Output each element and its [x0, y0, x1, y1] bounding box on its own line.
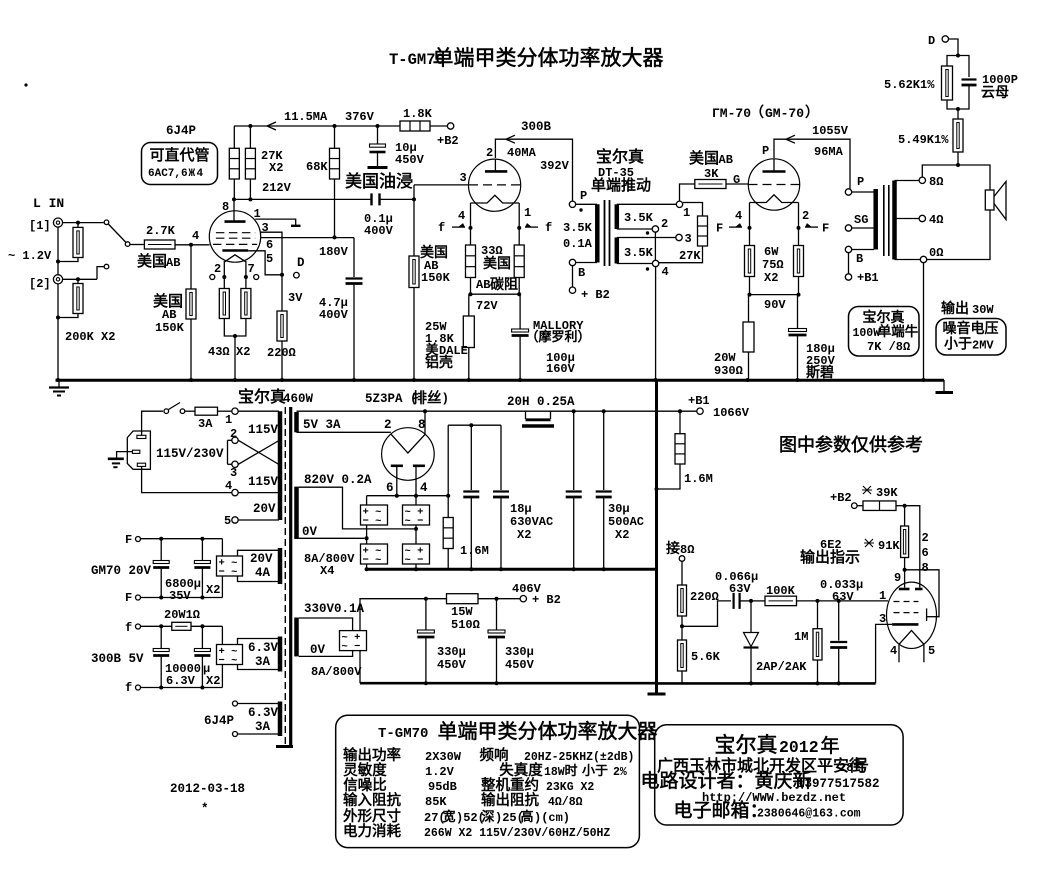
- svg-text:4: 4: [197, 168, 204, 180]
- wire 300B grid from coupling cap: [413, 185, 415, 256]
- mains plug P1: [127, 431, 150, 469]
- svg-text:20W1Ω: 20W1Ω: [164, 608, 200, 622]
- svg-text:5: 5: [266, 252, 273, 266]
- svg-text:− ~: − ~: [363, 516, 382, 528]
- svg-text:铝壳: 铝壳: [425, 354, 453, 370]
- filament arrows F F GM-70: [729, 226, 742, 228]
- capacitor C8 6800u: [201, 539, 203, 561]
- svg-text:0V: 0V: [310, 643, 326, 657]
- svg-text:+B1: +B1: [857, 271, 879, 285]
- wire minus rail 330V supply: [359, 651, 361, 684]
- svg-text:100W: 100W: [853, 327, 881, 340]
- svg-text:2012-03-18: 2012-03-18: [170, 782, 245, 796]
- svg-text:11.5MA: 11.5MA: [284, 110, 328, 124]
- tube V2 filament: [471, 195, 520, 203]
- rectifier bridge B1 20V: [221, 539, 223, 556]
- svg-text:2012: 2012: [779, 738, 819, 757]
- wire F bottom rail: [141, 597, 223, 599]
- svg-text:1M: 1M: [794, 630, 808, 644]
- tap 0 ohm: [895, 259, 921, 261]
- svg-text:+B2: +B2: [830, 491, 852, 505]
- resistor R17 75 ohm right: [798, 228, 800, 246]
- filament arrows f f 300B: [452, 226, 465, 228]
- capacitor C2 0.1u 400V coupling: [370, 193, 372, 205]
- svg-text:+B2: +B2: [437, 134, 459, 148]
- svg-text:f: f: [545, 221, 552, 235]
- svg-text:4: 4: [420, 481, 428, 495]
- svg-text:5: 5: [928, 644, 935, 658]
- svg-text:6J4P: 6J4P: [204, 714, 234, 728]
- wire rectifier output node: [367, 495, 449, 497]
- svg-text:1.2V: 1.2V: [425, 765, 455, 779]
- svg-text:15W: 15W: [451, 605, 473, 619]
- svg-text:GM70 20V: GM70 20V: [91, 564, 152, 578]
- svg-text:400V: 400V: [319, 308, 349, 322]
- svg-text:L IN: L IN: [33, 196, 64, 211]
- svg-text:f: f: [438, 221, 445, 235]
- tube V5 cathode bar: [892, 623, 918, 626]
- svg-text:F: F: [822, 222, 829, 236]
- svg-text:图中参数仅供参考: 图中参数仅供参考: [779, 435, 923, 455]
- terminal B output transformer: [845, 246, 851, 252]
- label noise voltage box: [936, 319, 1006, 356]
- resistor R 200K lower: [76, 277, 80, 281]
- svg-text:376V: 376V: [345, 110, 375, 124]
- svg-text:18μ: 18μ: [510, 502, 532, 516]
- svg-text:5.49K1%: 5.49K1%: [898, 133, 949, 147]
- earth ground at plug: [117, 452, 133, 458]
- transformer T2 output: terminal P: [845, 189, 851, 195]
- svg-text:宽: 宽: [442, 809, 455, 824]
- svg-text:180V: 180V: [319, 245, 349, 259]
- wire to grid node: [797, 600, 839, 602]
- input selector switch S1: [104, 220, 109, 225]
- wire 43 ohm join to ground: [224, 319, 246, 337]
- tube V5 filament: [899, 631, 924, 645]
- svg-text:1: 1: [683, 206, 690, 220]
- resistor R6 1.8K: [400, 121, 430, 131]
- svg-text:单端甲类分体功率放大器: 单端甲类分体功率放大器: [433, 47, 664, 70]
- svg-text:F: F: [125, 533, 132, 547]
- wire 90V cathode node: [749, 277, 751, 295]
- svg-text:300B: 300B: [521, 120, 552, 134]
- svg-text:6: 6: [922, 546, 929, 560]
- tube V4 anode bars: [391, 464, 403, 467]
- svg-text:− ~: − ~: [219, 567, 238, 579]
- svg-text:2: 2: [214, 262, 221, 276]
- svg-text:噪音电压: 噪音电压: [943, 320, 999, 336]
- svg-text:4: 4: [458, 209, 465, 223]
- terminal P DT-35: [569, 201, 575, 207]
- svg-text:20V: 20V: [250, 552, 273, 566]
- svg-text:400V: 400V: [364, 224, 394, 238]
- svg-text:2.7K: 2.7K: [146, 224, 176, 238]
- svg-text:30W: 30W: [972, 303, 994, 317]
- svg-text:96MA: 96MA: [814, 145, 844, 159]
- svg-text:90V: 90V: [764, 298, 786, 312]
- svg-text:95dB: 95dB: [428, 780, 457, 794]
- wire 5V bottom to tube filament pin2: [297, 431, 391, 433]
- terminal 3 DT-35: [676, 234, 682, 240]
- main vertical ground link: [655, 380, 658, 693]
- resistor R18 20W 930 ohm: [748, 295, 750, 322]
- svg-text:SG: SG: [854, 213, 868, 227]
- resistor R21 20W 1 ohm hum pot: [141, 625, 172, 627]
- svg-text:23KG X2: 23KG X2: [546, 781, 594, 794]
- svg-text:3: 3: [460, 171, 467, 185]
- svg-text:3A: 3A: [198, 417, 213, 431]
- svg-text:X2: X2: [764, 271, 778, 285]
- svg-text:27K: 27K: [679, 249, 701, 263]
- svg-text:2: 2: [922, 531, 929, 545]
- svg-text:4: 4: [192, 229, 199, 243]
- capacitor C17 0.066u 63V: [732, 593, 734, 609]
- tube V2 anode bar: [494, 159, 496, 171]
- svg-text:P: P: [580, 189, 587, 203]
- svg-text:7K /8: 7K /8: [867, 340, 903, 354]
- svg-text:6.3V: 6.3V: [248, 706, 279, 720]
- svg-text:150K: 150K: [155, 321, 185, 335]
- svg-text:宝尔真: 宝尔真: [238, 388, 286, 406]
- svg-text:AB: AB: [719, 153, 733, 167]
- tube V1 grid dashes: [216, 232, 255, 234]
- resistor R7 27K left: [233, 126, 235, 148]
- svg-text:392V: 392V: [540, 159, 570, 173]
- wire F top rail: [141, 538, 223, 540]
- wire f bottom rail: [141, 687, 223, 689]
- svg-text:68K: 68K: [306, 160, 328, 174]
- svg-text:)52(: )52(: [456, 811, 485, 825]
- wire to pin 2-6-8: [905, 506, 920, 588]
- svg-text:单端推动: 单端推动: [591, 177, 651, 194]
- wire choke loop: [525, 411, 527, 419]
- resistor R5 43 ohm heater right: [245, 277, 247, 289]
- svg-text:500AC: 500AC: [608, 515, 644, 529]
- terminal SG: [845, 225, 851, 231]
- svg-text:（: （: [750, 104, 764, 120]
- primary winding bars: [278, 411, 283, 466]
- svg-text:115V/230V: 115V/230V: [156, 447, 224, 461]
- diode D1 2AP/2AK: [750, 601, 752, 633]
- tube V4 pin8 wire: [424, 411, 426, 435]
- svg-text:9: 9: [894, 571, 901, 585]
- svg-text:)(cm): )(cm): [534, 811, 570, 825]
- svg-text:~ 1.2V: ~ 1.2V: [8, 249, 52, 263]
- current arrow 11.5MA: [267, 122, 276, 130]
- svg-text:输出: 输出: [941, 300, 969, 316]
- capacitor C5 180u 250V: [797, 295, 799, 329]
- svg-text:+ B2: + B2: [532, 593, 561, 607]
- svg-text:20H 0.25A: 20H 0.25A: [507, 395, 575, 409]
- capacitor C4 100u 160V MALLORY: [519, 294, 521, 329]
- capacitor C15 330u 450V a: [425, 599, 427, 630]
- capacitor C3 4.7u 400V: [353, 238, 355, 277]
- svg-text:1.6M: 1.6M: [460, 544, 489, 558]
- ground bus: [56, 379, 945, 382]
- resistor R8 27K right: [249, 126, 251, 148]
- svg-text:4Ω: 4Ω: [929, 213, 943, 227]
- svg-text:电力消耗: 电力消耗: [343, 823, 401, 840]
- svg-text:单端甲类分体功率放大器: 单端甲类分体功率放大器: [438, 720, 658, 743]
- svg-text:）: ）: [805, 104, 819, 120]
- tube V1 6J4P envelope: [209, 211, 260, 262]
- svg-text:宝尔真: 宝尔真: [596, 148, 644, 166]
- svg-text:5: 5: [224, 514, 231, 528]
- winding 20V 4A connection: [238, 550, 280, 556]
- svg-text:3: 3: [230, 466, 237, 480]
- svg-text:8Ω: 8Ω: [929, 175, 943, 189]
- svg-text:输出功率: 输出功率: [343, 747, 401, 764]
- wire 300B plate feed 392V: [495, 139, 572, 201]
- svg-text:8: 8: [922, 561, 929, 575]
- rectifier bridge B7 330V: [340, 631, 367, 651]
- svg-text:接: 接: [666, 540, 680, 556]
- svg-text:510Ω: 510Ω: [451, 618, 480, 632]
- resistor R28 5.6K: [681, 626, 683, 640]
- stray dot: [24, 83, 27, 86]
- svg-text:115V: 115V: [248, 475, 279, 489]
- note box: substitute tubes: [142, 143, 218, 185]
- svg-text:72V: 72V: [476, 299, 498, 313]
- transformer T1 secondary bottom 3.5K: [615, 238, 620, 264]
- svg-text:330μ: 330μ: [505, 645, 534, 659]
- svg-text:6AC7,6: 6AC7,6: [148, 168, 188, 180]
- svg-text:Ω: Ω: [289, 346, 296, 360]
- svg-text:63V: 63V: [832, 590, 854, 604]
- svg-text:失真度: 失真度: [499, 761, 543, 779]
- svg-text:0Ω: 0Ω: [929, 246, 943, 260]
- svg-text:630VAC: 630VAC: [510, 515, 553, 529]
- svg-text:整机重约: 整机重约: [481, 777, 539, 794]
- svg-text:输出阻抗: 输出阻抗: [481, 792, 539, 809]
- terminal 1 DT-35: [676, 201, 682, 207]
- svg-text:AB: AB: [166, 256, 180, 270]
- winding 6.3V 3A (6J4P): [233, 701, 238, 706]
- terminal D upper divider: [942, 36, 948, 42]
- resistor R1 2.7K: [130, 244, 145, 246]
- svg-text:电子邮箱：: 电子邮箱：: [673, 800, 768, 822]
- ground symbol right chassis: [943, 380, 945, 392]
- svg-text:2%: 2%: [613, 766, 627, 779]
- svg-text:8Ω: 8Ω: [680, 543, 694, 557]
- svg-text:美国: 美国: [420, 244, 448, 260]
- svg-text:20V: 20V: [253, 502, 276, 516]
- capacitor C9 10000u: [160, 626, 162, 648]
- svg-text:30μ: 30μ: [608, 502, 630, 516]
- svg-text:X2: X2: [206, 583, 220, 597]
- svg-text:450V: 450V: [437, 658, 467, 672]
- transformer T1 secondary top 3.5K: [615, 204, 620, 229]
- tube V5 pins 4 5: [898, 644, 900, 662]
- resistor R19 5.62K 1%: [947, 56, 958, 67]
- svg-text:150K: 150K: [421, 271, 451, 285]
- tube V3 filament: [750, 195, 799, 203]
- capacitor C7 6800u: [160, 539, 162, 561]
- svg-text:63V: 63V: [729, 582, 751, 596]
- svg-text:1.8K: 1.8K: [403, 107, 433, 121]
- svg-text:5V 3A: 5V 3A: [303, 418, 341, 432]
- svg-text:4Ω/8Ω: 4Ω/8Ω: [548, 796, 583, 809]
- svg-text:8: 8: [222, 200, 229, 214]
- cross wires 115V/230V select: [238, 440, 279, 464]
- tube V3 anode bar: [773, 159, 775, 172]
- svg-text:2380646@163.com: 2380646@163.com: [757, 808, 861, 821]
- svg-text:2X30W: 2X30W: [425, 750, 462, 764]
- tube V5 top plates: [899, 588, 910, 591]
- svg-text:单端牛: 单端牛: [878, 324, 919, 339]
- winding 6.3V 3A (300B) connection: [238, 639, 280, 645]
- tube V2 grid dashes: [469, 184, 520, 186]
- svg-text:云母: 云母: [981, 84, 1009, 100]
- rectifier bridge B2 6.3V: [221, 626, 223, 644]
- transformer T2 primary winding: [852, 191, 874, 193]
- tube V5 6E2 envelope: [887, 582, 937, 648]
- svg-text:信噪比: 信噪比: [343, 777, 387, 794]
- tube V1 heater: [225, 255, 246, 262]
- svg-text:460W: 460W: [283, 392, 314, 406]
- transformer T1 primary winding: [576, 203, 597, 205]
- wire B1 top rail: [297, 410, 698, 412]
- resistor R29 100K: [751, 600, 765, 602]
- svg-text:3: 3: [262, 221, 269, 235]
- speaker LS1: [985, 190, 994, 210]
- svg-text:GM-70: GM-70: [765, 106, 804, 121]
- wire divider to 8 ohm tap and speaker: [956, 163, 960, 167]
- svg-text:85K: 85K: [425, 795, 447, 809]
- capacitor C10 10000u: [201, 626, 203, 648]
- resistor R 200K upper: [77, 223, 79, 228]
- svg-text:− ~: − ~: [219, 655, 238, 667]
- svg-text:D: D: [928, 34, 935, 48]
- transformer T2 secondary winding: [892, 181, 897, 260]
- svg-text:18W: 18W: [544, 766, 565, 779]
- svg-text:2: 2: [486, 146, 493, 160]
- svg-text:5.6K: 5.6K: [691, 650, 721, 664]
- wire terminals 2-3 link: [227, 440, 229, 464]
- svg-text:排丝: 排丝: [413, 390, 442, 407]
- svg-text:高: 高: [520, 809, 533, 824]
- svg-text:3.5K: 3.5K: [624, 211, 654, 225]
- svg-text:5Z3PA (: 5Z3PA (: [365, 392, 418, 406]
- svg-text:35V: 35V: [169, 589, 191, 603]
- rectifier bridge B4 820V b: [415, 496, 417, 505]
- svg-text:330V0.1A: 330V0.1A: [304, 602, 365, 616]
- capacitor C16 330u 450V b: [496, 599, 498, 630]
- svg-text:输入阻抗: 输入阻抗: [343, 792, 401, 809]
- svg-text:0V: 0V: [302, 525, 318, 539]
- svg-text:160V: 160V: [546, 362, 576, 376]
- svg-text:2: 2: [661, 217, 668, 231]
- tube V2 300B envelope: [469, 159, 521, 211]
- wire 72V cathode node: [471, 293, 520, 295]
- resistor R3 220 ohm cathode: [281, 275, 283, 311]
- transformer core solid: [289, 407, 292, 745]
- svg-text:AB: AB: [476, 278, 490, 292]
- wire D to divider: [949, 39, 958, 56]
- rectifier bridge B6 820V d: [415, 525, 417, 544]
- resistor R9 68K: [334, 126, 336, 148]
- svg-text:2: 2: [802, 209, 809, 223]
- svg-text:B: B: [856, 252, 863, 266]
- terminal 2 DT-35: [652, 226, 658, 232]
- svg-text:− ~: − ~: [363, 555, 382, 567]
- ground symbol left: [58, 381, 60, 387]
- svg-text:ΓM-70: ΓM-70: [712, 106, 751, 121]
- svg-text:115V: 115V: [248, 423, 279, 437]
- svg-text:6W: 6W: [764, 245, 779, 259]
- svg-text:1: 1: [225, 413, 232, 427]
- svg-text:1.6M: 1.6M: [684, 472, 713, 486]
- terminal 4 DT-35: [652, 260, 658, 266]
- svg-text:+ B2: + B2: [581, 288, 610, 302]
- svg-text:6: 6: [266, 238, 273, 252]
- svg-text:3.5K: 3.5K: [563, 221, 593, 235]
- svg-text:时: 时: [564, 763, 577, 778]
- svg-text:年: 年: [820, 735, 839, 757]
- svg-text:AB: AB: [162, 308, 176, 322]
- resistor R22 1.6M bleeder left: [447, 425, 449, 517]
- company box: [655, 725, 903, 825]
- tube V4 5Z3PA envelope: [382, 428, 435, 481]
- svg-text:4: 4: [890, 644, 897, 658]
- svg-text:B: B: [578, 266, 585, 280]
- svg-text:43Ω: 43Ω: [208, 345, 230, 359]
- tube V3 GM-70 envelope: [748, 159, 799, 210]
- resistor R10 150K grid leak 300B: [409, 256, 419, 288]
- svg-text:*: *: [201, 802, 209, 816]
- primary terminal 5: [232, 517, 238, 523]
- svg-text:+B1: +B1: [688, 394, 710, 408]
- svg-text:3.5K: 3.5K: [624, 246, 654, 260]
- svg-text:斯碧: 斯碧: [806, 364, 834, 380]
- svg-text:[1]: [1]: [29, 219, 51, 233]
- tap 8 ohm: [895, 180, 920, 182]
- svg-text:深: 深: [481, 809, 494, 824]
- svg-text:75Ω: 75Ω: [762, 258, 784, 272]
- svg-text:6: 6: [386, 481, 394, 495]
- wire plate node to coupling cap: [234, 198, 372, 200]
- svg-text:): ): [442, 392, 450, 406]
- svg-text:美国: 美国: [689, 150, 719, 167]
- resistor R11 33 ohm left: [470, 228, 472, 245]
- tube V5 grid dashes: [894, 601, 919, 603]
- tube V3 grid dashes: [749, 184, 800, 186]
- wire terminals 2-4 to ground: [654, 232, 656, 260]
- svg-text:灵敏度: 灵敏度: [343, 762, 387, 779]
- winding 5V 3A: [294, 412, 299, 432]
- primary terminal 4: [142, 466, 232, 492]
- svg-text:f: f: [125, 621, 132, 635]
- resistor R23 1.6M bleeder right: [679, 411, 681, 434]
- svg-text:8A/800V: 8A/800V: [311, 665, 362, 679]
- svg-text:Ω: Ω: [903, 340, 910, 354]
- wire grid to terminal 1: [680, 184, 695, 201]
- terminal +B2 DT-35: [572, 266, 574, 287]
- svg-text:212V: 212V: [262, 181, 292, 195]
- svg-text:40MA: 40MA: [507, 146, 537, 160]
- capacitor C12 18u 630VAC: [500, 425, 502, 490]
- svg-text:G: G: [733, 173, 740, 187]
- resistor R15 27K: [683, 203, 703, 217]
- svg-text:28: 28: [839, 761, 853, 775]
- svg-text:（摩罗利）: （摩罗利）: [525, 329, 590, 344]
- svg-text:6J4P: 6J4P: [166, 124, 196, 138]
- wire 180V node: [261, 237, 355, 239]
- svg-text:2: 2: [384, 418, 392, 432]
- capacitor C11 18u 630VAC: [470, 425, 472, 490]
- capacitor C14 30u 500AC: [603, 411, 605, 490]
- resistor R12 33 ohm right: [518, 228, 520, 245]
